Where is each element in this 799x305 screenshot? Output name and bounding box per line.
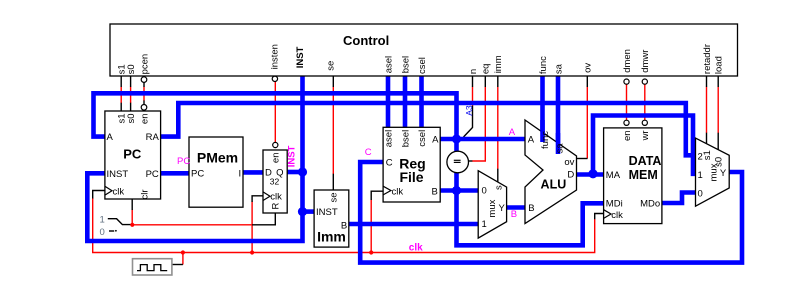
- svg-text:File: File: [399, 169, 423, 185]
- svg-text:clr: clr: [139, 189, 150, 199]
- svg-text:ov: ov: [564, 157, 574, 168]
- svg-text:sa: sa: [553, 63, 564, 74]
- svg-text:bsel: bsel: [400, 56, 411, 73]
- svg-text:bsel: bsel: [400, 130, 411, 147]
- svg-text:MDo: MDo: [640, 199, 660, 210]
- svg-text:A: A: [107, 132, 114, 143]
- svg-text:sa: sa: [554, 143, 565, 154]
- svg-text:C: C: [386, 158, 393, 169]
- svg-text:INST: INST: [107, 169, 129, 180]
- svg-text:1: 1: [482, 219, 487, 230]
- svg-text:mux: mux: [708, 163, 719, 181]
- svg-text:C: C: [365, 147, 372, 158]
- svg-text:MA: MA: [606, 170, 621, 181]
- svg-text:wr: wr: [640, 130, 651, 141]
- svg-text:DATA: DATA: [629, 154, 662, 168]
- svg-text:en: en: [139, 114, 150, 125]
- svg-text:Y: Y: [499, 203, 506, 214]
- svg-text:se: se: [329, 193, 340, 203]
- svg-text:MEM: MEM: [629, 168, 658, 182]
- svg-text:1: 1: [698, 170, 703, 181]
- svg-text:INST: INST: [295, 46, 306, 68]
- svg-text:se: se: [326, 61, 337, 71]
- svg-text:PC: PC: [177, 156, 190, 167]
- svg-text:func: func: [540, 131, 551, 149]
- svg-text:PMem: PMem: [197, 150, 238, 166]
- svg-text:n: n: [468, 69, 479, 74]
- svg-text:A: A: [528, 135, 535, 146]
- svg-text:PC: PC: [191, 169, 204, 180]
- svg-text:INST: INST: [286, 145, 297, 167]
- svg-text:func: func: [538, 56, 549, 74]
- svg-text:mux: mux: [487, 199, 498, 217]
- svg-text:asel: asel: [383, 130, 394, 147]
- svg-text:s: s: [494, 185, 505, 190]
- svg-text:32: 32: [270, 177, 280, 187]
- svg-text:1: 1: [100, 215, 105, 226]
- svg-text:I: I: [239, 169, 242, 180]
- svg-text:B: B: [528, 203, 534, 214]
- svg-text:A: A: [509, 127, 516, 138]
- svg-text:RA: RA: [146, 132, 160, 143]
- svg-text:dmen: dmen: [622, 49, 633, 73]
- svg-text:en: en: [622, 130, 633, 141]
- svg-text:clk: clk: [392, 186, 404, 197]
- svg-text:INST: INST: [316, 207, 338, 218]
- svg-text:eq: eq: [481, 64, 492, 75]
- svg-text:clk: clk: [409, 242, 423, 253]
- svg-text:imm: imm: [493, 55, 504, 73]
- svg-text:clk: clk: [270, 192, 282, 203]
- svg-text:Control: Control: [343, 33, 389, 48]
- svg-text:clk: clk: [113, 186, 125, 197]
- svg-text:0: 0: [698, 188, 703, 199]
- svg-text:load: load: [714, 56, 725, 74]
- svg-text:ALU: ALU: [541, 178, 567, 192]
- svg-text:Y: Y: [720, 168, 727, 179]
- svg-text:A31: A31: [464, 100, 474, 115]
- svg-text:PC: PC: [123, 147, 142, 162]
- svg-text:retaddr: retaddr: [702, 44, 713, 74]
- svg-text:insten: insten: [269, 44, 280, 69]
- svg-text:ov: ov: [583, 63, 594, 73]
- svg-text:s0: s0: [126, 64, 137, 74]
- svg-text:clk: clk: [611, 210, 623, 221]
- svg-text:s0: s0: [126, 114, 137, 124]
- svg-text:PC: PC: [146, 169, 159, 180]
- svg-text:asel: asel: [383, 56, 394, 73]
- svg-text:csel: csel: [417, 57, 428, 74]
- svg-text:s1: s1: [702, 150, 713, 160]
- svg-text:B: B: [431, 186, 437, 197]
- svg-text:MDi: MDi: [606, 199, 623, 210]
- svg-text:csel: csel: [417, 130, 428, 147]
- svg-text:en: en: [271, 153, 282, 164]
- svg-text:A: A: [432, 135, 439, 146]
- svg-text:D: D: [567, 170, 574, 181]
- svg-text:0: 0: [100, 227, 105, 238]
- svg-text:R: R: [271, 203, 282, 210]
- svg-text:B: B: [511, 209, 517, 220]
- svg-text:0: 0: [482, 186, 487, 197]
- svg-text:dmwr: dmwr: [640, 50, 651, 73]
- svg-text:pcen: pcen: [139, 54, 150, 75]
- svg-text:B: B: [341, 220, 347, 231]
